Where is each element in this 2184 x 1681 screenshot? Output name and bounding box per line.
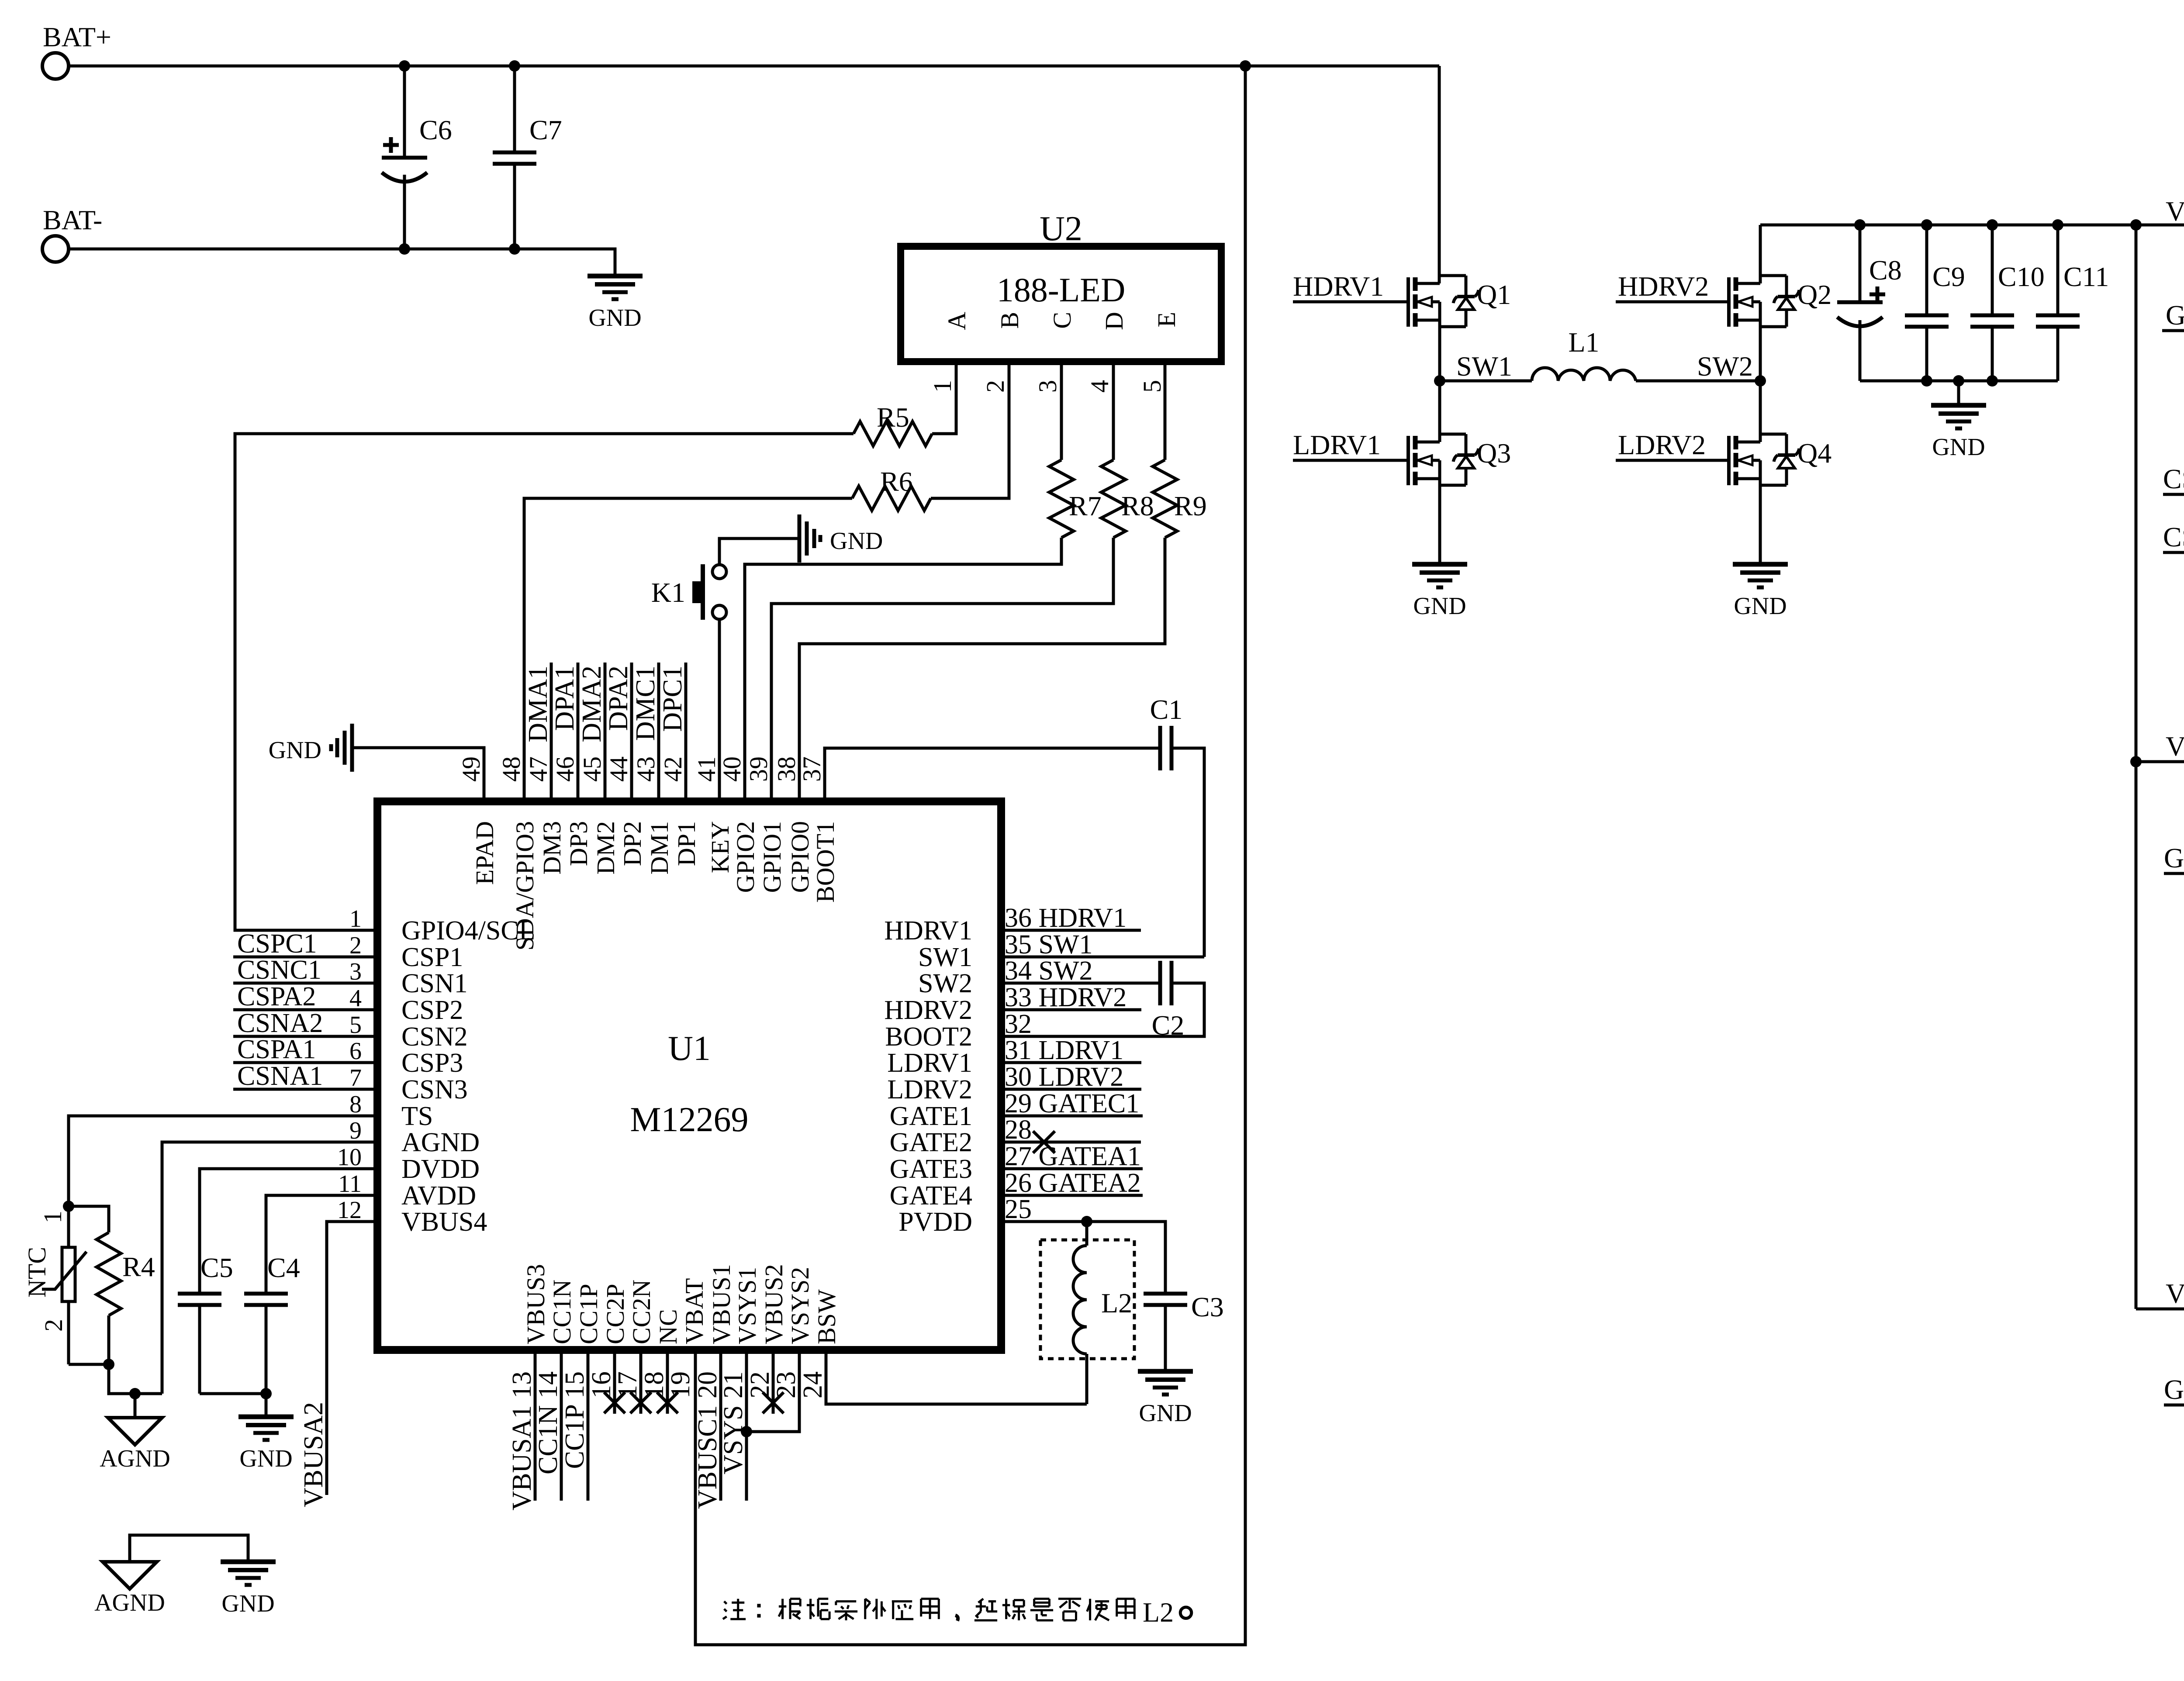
capacitor C11 [2056,225,2060,315]
svg-text:BAT+: BAT+ [43,21,111,52]
svg-text:6: 6 [349,1038,362,1065]
svg-text:CSN3: CSN3 [401,1075,468,1105]
wire LDRV2 to Q4 gate [1616,459,1729,462]
svg-text:2: 2 [981,380,1009,393]
resistor R6 [852,486,931,511]
resistor R9 [1153,460,1177,538]
svg-text:C: C [1048,312,1076,329]
svg-text:Q4: Q4 [1797,438,1832,469]
svg-text:LDRV1: LDRV1 [1293,429,1381,460]
svg-text:L2: L2 [1143,1597,1174,1628]
svg-text:GND: GND [239,1445,292,1472]
svg-text:GND: GND [588,304,641,331]
svg-text:SDA/GPIO3: SDA/GPIO3 [511,821,539,951]
svg-text:VSYS: VSYS [2166,731,2184,762]
svg-text:EPAD: EPAD [470,821,499,885]
svg-text:C8: C8 [1869,255,1902,286]
svg-text:NC: NC [654,1309,682,1344]
wire U2 pin4 to R8 [1112,362,1115,460]
svg-text:VBUSA2: VBUSA2 [299,1402,328,1507]
svg-text:CSNA1: CSNA1 [237,1061,323,1091]
svg-text:R4: R4 [122,1251,155,1282]
no-connect X on pin 28 [1033,1131,1055,1153]
svg-text:CC1N: CC1N [548,1280,576,1344]
svg-text:C9: C9 [1932,261,1965,292]
svg-text:R8: R8 [1121,490,1154,521]
wire GATEA1 to Q6 gate [2164,872,2184,875]
wire U2 pin1 to R5 [932,362,956,434]
svg-text:CSNC1: CSNC1 [237,955,321,985]
svg-text:49: 49 [457,756,485,782]
svg-text:GATEA1: GATEA1 [2164,842,2184,873]
svg-text:CSP2: CSP2 [401,995,463,1025]
svg-text:18: 18 [639,1371,669,1398]
svg-text:BOOT2: BOOT2 [885,1022,972,1052]
svg-text:GATE2: GATE2 [890,1128,972,1157]
svg-text:40: 40 [718,756,746,782]
ground GND at BAT- [587,274,643,279]
svg-text:CC2P: CC2P [601,1284,629,1344]
svg-text:38: 38 [772,756,801,782]
svg-text:48: 48 [497,756,525,782]
svg-text:32: 32 [1005,1009,1032,1039]
svg-text:4: 4 [349,985,362,1012]
resistor R7 [1049,460,1074,538]
svg-text:CSNC1: CSNC1 [2163,463,2184,494]
svg-text:LDRV2: LDRV2 [887,1075,972,1105]
svg-text:VBUS1: VBUS1 [707,1264,736,1344]
svg-text:GND: GND [1932,434,1985,461]
svg-text:C1: C1 [1150,694,1183,725]
svg-text:CSPC1: CSPC1 [237,929,317,959]
svg-text:R9: R9 [1174,490,1207,521]
pushbutton K1 [712,565,726,579]
svg-text:1: 1 [349,905,362,932]
terminal BAT+ [42,53,69,79]
wire Q2 source to SW2 [1759,320,1762,381]
wire GATEC1 to Q5 gate [2162,329,2184,332]
wire R5 to U1 pin1 [235,434,854,930]
svg-text:VSYS2: VSYS2 [786,1267,814,1344]
wire U1 pin9 AGND [162,1142,377,1394]
svg-text:CSPA1: CSPA1 [237,1035,316,1064]
svg-text:41: 41 [692,756,721,782]
svg-text:GATE3: GATE3 [890,1154,972,1184]
svg-text:BOOT1: BOOT1 [811,821,840,903]
svg-text:Q3: Q3 [1477,438,1511,469]
svg-text:TS: TS [401,1101,433,1131]
svg-text:7: 7 [349,1064,362,1091]
svg-text:C3: C3 [1191,1291,1224,1322]
svg-text:GPIO0: GPIO0 [786,821,814,893]
svg-text:VSYS 21: VSYS 21 [719,1371,748,1474]
wire GATEA2 to Q7 gate [2164,1404,2184,1407]
wire R9 to U1 pin38 [799,538,1165,801]
svg-text:L1: L1 [1568,327,1599,358]
svg-text:R5: R5 [877,402,909,433]
wire VSYS vertical distribution [2135,225,2138,1309]
wire Q1 source to SW1 [1438,320,1441,381]
wire R8 to U1 pin39 [771,538,1113,801]
svg-text:DMA2: DMA2 [577,666,607,742]
svg-text:VBUSC1 20: VBUSC1 20 [693,1371,722,1509]
capacitor C5 [200,1169,377,1294]
svg-text:2: 2 [39,1319,68,1332]
svg-text:28: 28 [1005,1115,1032,1145]
wire U2 pin3 to R7 [1060,362,1063,460]
ground AGND bottom-left [103,1562,157,1589]
wire U2 pin5 to R9 [1164,362,1167,460]
svg-text:AGND: AGND [401,1128,480,1157]
svg-text:4: 4 [1085,380,1114,393]
terminal BAT- [42,236,69,262]
svg-text:CSNA2: CSNA2 [237,1008,323,1038]
svg-text:11: 11 [338,1170,362,1198]
svg-text:AGND: AGND [94,1589,165,1616]
svg-text:19: 19 [666,1371,695,1398]
ground GND at U1 pin49 EPAD [353,748,484,801]
wire AGND-GND tie [130,1535,248,1562]
svg-text:DM2: DM2 [591,821,620,874]
svg-text:C7: C7 [529,114,562,145]
wire R7 to U1 pin40 [745,538,1061,801]
wire K1 to ground [719,538,799,565]
svg-text:HDRV1: HDRV1 [884,916,972,946]
capacitor C6 [403,66,406,158]
svg-text:27 GATEA1: 27 GATEA1 [1005,1142,1141,1171]
note text about L2 usage [724,1602,727,1604]
svg-text:SW2: SW2 [1697,351,1753,382]
junction dots BAT- [399,243,410,255]
svg-text:GND: GND [1734,593,1787,620]
svg-text:A: A [943,312,971,330]
svg-text:8: 8 [349,1091,362,1118]
svg-text:VBUS4: VBUS4 [401,1207,487,1237]
svg-text:DM3: DM3 [538,821,566,874]
svg-text:3: 3 [349,958,362,985]
wire BAT+ rail [69,65,1439,68]
ground GND below C3 [1138,1369,1193,1374]
svg-text:36 HDRV1: 36 HDRV1 [1005,903,1127,933]
wire VSYS output rail [1760,224,2184,227]
svg-text:Q2: Q2 [1797,279,1832,310]
svg-text:GPIO2: GPIO2 [731,821,760,893]
svg-text:VSYS: VSYS [2166,196,2184,227]
ground GND below capacitor bank [1957,381,1960,405]
svg-text:DM1: DM1 [645,821,674,874]
svg-text:29 GATEC1: 29 GATEC1 [1005,1089,1139,1118]
svg-text:VBUSA1 13: VBUSA1 13 [507,1371,537,1511]
svg-text:DMA1: DMA1 [523,666,553,742]
svg-text:DP2: DP2 [618,821,646,866]
svg-text:DMC1: DMC1 [631,666,660,741]
resistor R5 [854,421,932,446]
svg-text:9: 9 [349,1117,362,1144]
wire K1 to U1 pin41 KEY [718,619,721,801]
node NTC bottom [69,1363,109,1366]
junction dots on cap bottom rail [1921,375,1932,387]
svg-text:C11: C11 [2063,261,2109,292]
thermistor NTC [67,1206,70,1247]
svg-text:CSP3: CSP3 [401,1048,463,1078]
svg-text:AVDD: AVDD [401,1181,476,1211]
svg-text:33 HDRV2: 33 HDRV2 [1005,983,1127,1012]
svg-text:SW1: SW1 [1456,351,1512,382]
node SW1 [1434,375,1445,387]
svg-text:26 GATEA2: 26 GATEA2 [1005,1168,1141,1198]
svg-text:HDRV2: HDRV2 [1618,271,1709,302]
svg-text:HDRV2: HDRV2 [884,995,972,1025]
svg-text:B: B [995,312,1024,329]
svg-text:30 LDRV2: 30 LDRV2 [1005,1062,1123,1092]
wire to AGND [109,1364,162,1394]
svg-text:CSN1: CSN1 [401,969,468,998]
junction dots on VSYS rail [1854,219,1866,231]
ground GND below Q4 [1733,562,1788,567]
svg-text:KEY: KEY [706,821,734,873]
svg-text:BSW: BSW [812,1289,841,1344]
U1 bottom NC pins 16 17 18 22 with X [613,1350,616,1414]
svg-text:U2: U2 [1040,210,1082,248]
svg-text:25: 25 [1005,1194,1032,1224]
svg-text:2: 2 [349,932,362,959]
svg-text:3: 3 [1033,380,1062,393]
svg-text:DPC1: DPC1 [658,666,688,732]
svg-text:PVDD: PVDD [898,1207,972,1237]
wire HDRV2 to Q2 gate [1616,300,1729,304]
svg-text:CSN2: CSN2 [401,1022,468,1052]
svg-text:GND: GND [1139,1400,1192,1427]
svg-text:DVDD: DVDD [401,1154,480,1184]
svg-text:VBUS3: VBUS3 [522,1264,550,1344]
svg-text:DP3: DP3 [564,821,593,866]
svg-text:GATE1: GATE1 [890,1101,972,1131]
node NTC top [63,1201,74,1212]
wire R6 to U1 pin48 [524,498,852,801]
svg-text:NTC: NTC [23,1247,51,1298]
ground GND below Q3 [1412,562,1467,567]
svg-text:10: 10 [337,1144,362,1171]
svg-text:VSYS: VSYS [2166,1278,2184,1309]
ground GND at K1 [798,514,802,563]
svg-text:42: 42 [659,756,687,782]
capacitor C1 bootstrap BOOT1-SW1 [825,748,1160,801]
svg-text:LDRV1: LDRV1 [887,1048,972,1078]
svg-text:GND: GND [269,737,321,764]
wire U2 pin2 to R6 [931,362,1009,498]
wire Q3 source to ground [1438,479,1441,564]
svg-text:CSP1: CSP1 [401,942,463,972]
svg-text:BAT-: BAT- [43,204,102,235]
svg-text:K1: K1 [651,577,685,608]
svg-text:GND: GND [1413,593,1466,620]
wire capacitor bottom rail [1860,380,2058,383]
capacitor C10 [1991,225,1994,315]
IC U2 188-LED box [901,246,1221,362]
wire VSYS to J2 [2136,760,2184,763]
wire VSYS to J3 [2136,1308,2184,1311]
svg-text:34 SW2: 34 SW2 [1005,956,1093,986]
svg-text:CC2N: CC2N [627,1280,656,1344]
wire U1 pin12 VBUS4 net VBUSA2 [327,1222,377,1495]
svg-text:HDRV1: HDRV1 [1293,271,1384,302]
svg-text:VSYS1: VSYS1 [733,1267,761,1344]
svg-text:D: D [1100,312,1128,330]
capacitor C3 [1144,1292,1187,1296]
capacitor C7 [513,66,516,152]
resistor R4 [69,1206,109,1232]
svg-text:31 LDRV1: 31 LDRV1 [1005,1036,1123,1065]
svg-text:39: 39 [744,756,773,782]
svg-text:Q1: Q1 [1477,279,1511,310]
svg-text:46: 46 [551,756,579,782]
ground AGND at R4 [134,1394,137,1418]
svg-text:DPA2: DPA2 [604,666,633,731]
capacitor C2 bootstrap BOOT2-SW2 [1158,961,1162,1005]
svg-text:LDRV2: LDRV2 [1618,429,1706,460]
svg-text:17: 17 [613,1371,643,1398]
wire HDRV1 to Q1 gate [1293,300,1408,304]
wire VBAT loop from BAT+ down to U1 pin19 [695,66,1245,1645]
transistor Q4 [1759,381,1762,442]
svg-text:CC1P 15: CC1P 15 [560,1371,590,1469]
svg-text:SW2: SW2 [918,969,972,998]
svg-text:1: 1 [38,1211,67,1223]
U1 bottom stub wires pins 13-15 20 21 [534,1350,537,1501]
svg-text:43: 43 [632,756,660,782]
svg-text:C2: C2 [1152,1010,1185,1041]
U1 top net labels DMA1-DPC1 [550,663,553,801]
svg-text:AGND: AGND [100,1445,170,1472]
capacitor C9 [1925,225,1928,315]
wire CSNC1 [2163,493,2184,496]
wire LDRV1 to Q3 gate [1293,459,1408,462]
svg-text:188-LED: 188-LED [997,271,1126,309]
svg-text:44: 44 [605,756,633,782]
svg-text:16: 16 [587,1371,616,1398]
wire U1 pin8 TS to NTC [69,1116,377,1206]
svg-text:22: 22 [745,1371,775,1398]
IC U1 M12269 box [377,801,1001,1350]
svg-text:R7: R7 [1069,490,1102,521]
ground GND below C4 [265,1394,268,1417]
U1 right stub wires [1001,929,1141,932]
wire C5 C4 common [200,1392,266,1395]
svg-text:GATEC1: GATEC1 [2166,300,2184,331]
svg-text:DP1: DP1 [672,821,701,866]
svg-text:CC1P: CC1P [574,1284,603,1344]
svg-text:M12269: M12269 [630,1101,748,1139]
svg-text:CSPC1: CSPC1 [2163,521,2184,552]
wire Q4 source to ground [1759,479,1762,564]
svg-text:C5: C5 [200,1252,233,1283]
svg-text:SW1: SW1 [918,942,972,972]
svg-text:1: 1 [928,380,957,393]
svg-text:L2: L2 [1101,1288,1132,1319]
svg-text:CC1N 14: CC1N 14 [533,1371,563,1474]
transistor Q2 [1759,225,1762,283]
ground GND bottom-left [221,1560,276,1564]
svg-text:GATEA2: GATEA2 [2164,1374,2184,1405]
svg-text:DPA1: DPA1 [550,666,580,731]
svg-text:37: 37 [798,756,826,782]
wire CSPC1 [2163,551,2184,554]
svg-text:45: 45 [578,756,606,782]
svg-text:GND: GND [830,528,883,555]
svg-text:12: 12 [337,1197,362,1224]
svg-text:C10: C10 [1998,261,2045,292]
wire PVDD pin25 to L2 and C3 [1001,1222,1165,1294]
transistor Q1 [1438,66,1441,283]
svg-text:GATE4: GATE4 [890,1181,972,1211]
svg-text:VBUS2: VBUS2 [760,1264,788,1344]
svg-text:VBAT: VBAT [680,1278,708,1344]
capacitor C4 [266,1195,377,1294]
svg-text:5: 5 [1138,380,1166,393]
wire pin23 VSYS2 join pin21 [746,1350,799,1432]
svg-text:E: E [1152,312,1181,327]
svg-text:47: 47 [524,756,553,782]
svg-text:C4: C4 [267,1252,300,1283]
transistor Q3 [1438,381,1441,442]
svg-text:R6: R6 [880,466,913,497]
svg-text:U1: U1 [668,1029,711,1068]
svg-text:5: 5 [349,1011,362,1039]
svg-text:23: 23 [771,1371,801,1398]
inductor L2 with dashed option box [1085,1222,1089,1246]
capacitor C8 [1859,225,1862,302]
svg-text:35 SW1: 35 SW1 [1005,930,1093,960]
svg-text:C6: C6 [419,114,452,145]
svg-text:24: 24 [798,1371,828,1398]
U1 left net stub wires pins 2-7 [233,956,377,959]
inductor L1 [1440,380,1532,383]
svg-text:GND: GND [221,1590,274,1617]
svg-text:CSPA2: CSPA2 [237,982,316,1011]
wire BAT- to ground [69,249,615,276]
wire pin24 BSW to L2 bottom [826,1350,1087,1404]
svg-text:GPIO1: GPIO1 [758,821,786,893]
junction dots BAT+ rail [399,60,410,72]
resistor R8 [1101,460,1126,538]
node SW2 [1755,375,1766,387]
